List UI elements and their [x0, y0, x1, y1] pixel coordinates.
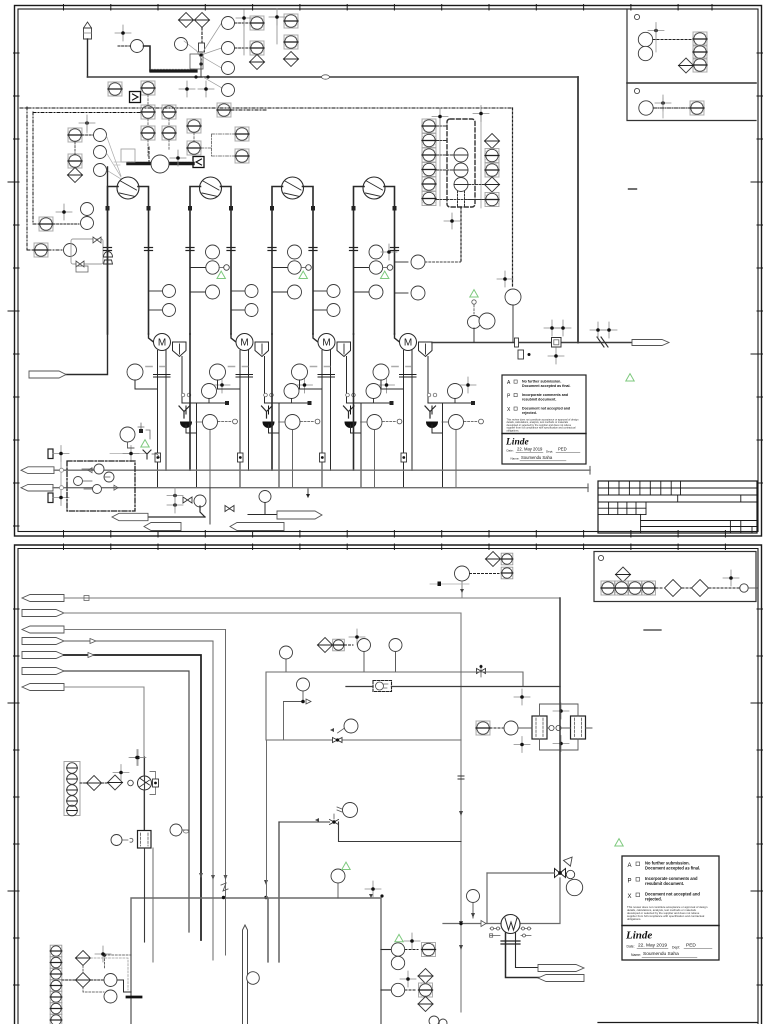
svg-text:rejected.: rejected. [645, 897, 662, 902]
instrument circle pair on header [468, 316, 481, 329]
dip tube [243, 925, 248, 1024]
wire vent line down [87, 39, 89, 77]
data-link box > [130, 92, 141, 103]
page 1 border tick marks [8, 5, 763, 538]
circle on flag6 line [280, 646, 293, 659]
page 2 outer border frame [15, 545, 762, 1024]
suction pipes of trains 2-4 to bottom header [189, 334, 191, 470]
discharge lines [506, 933, 541, 978]
long dash-dot signal line [20, 107, 513, 109]
lube oil skid boundary [71, 239, 103, 264]
sample dotted line down from cabinet [460, 207, 462, 262]
header 1 [54, 469, 590, 471]
svg-text:Name:: Name: [511, 457, 520, 461]
compressor train 2 [186, 177, 320, 488]
shared display [68, 128, 82, 142]
signal fan to compressor [107, 136, 122, 179]
arrows on vertical lines [459, 811, 463, 816]
inner dash-dot signal line [33, 112, 141, 114]
battery limit flag [29, 371, 66, 378]
relief bell on pipe [104, 252, 113, 257]
flag B [144, 523, 181, 531]
bracket connector [201, 134, 235, 156]
dotted signal [653, 39, 692, 41]
circle with crosshair [349, 629, 365, 645]
svg-text:obligations.: obligations. [507, 429, 520, 432]
control valve on flag6 line [477, 669, 486, 674]
green triangle lower left [141, 440, 149, 447]
svg-text:P: P [628, 879, 632, 885]
train 2 discharge instrument stubs [231, 285, 258, 317]
filter vessel 2 [571, 716, 586, 739]
inner drop [283, 702, 285, 741]
flag 5 right-pointing [22, 652, 64, 659]
flag 7 left-pointing [22, 684, 64, 691]
dotted signal to shared display [235, 22, 249, 24]
dashed drop [148, 147, 150, 162]
second shared display column [284, 14, 298, 28]
filter box [138, 831, 152, 849]
compressor train 3 [268, 177, 402, 488]
svg-text:resubmit document.: resubmit document. [645, 881, 684, 886]
vessel top arrows [369, 894, 373, 898]
line from flag4 [64, 640, 213, 642]
inline gate valve [515, 338, 519, 347]
gate valve rects [48, 449, 53, 459]
crosshair [115, 25, 131, 41]
train 3 discharge instrument stubs [313, 285, 340, 317]
svg-text:Document accepted as final.: Document accepted as final. [522, 384, 571, 388]
dashed PLC box [373, 681, 392, 692]
mid verticals [678, 495, 741, 502]
crosshair [170, 150, 186, 166]
crosshair [79, 115, 95, 131]
vertical stub [209, 488, 211, 524]
green position triangle [470, 290, 478, 297]
match line dash page 2 [644, 629, 661, 631]
flag D [277, 511, 322, 519]
dash-dot continuation right of cs [231, 109, 268, 111]
equipment box left edge [266, 672, 523, 740]
dashed boundary verticals [26, 107, 28, 250]
instrument circle [504, 721, 518, 735]
jacketed (hatched) line segment [151, 69, 196, 72]
instrument circles [94, 129, 107, 142]
shared display low [68, 154, 82, 168]
stack 3 with diamonds [485, 134, 500, 207]
legend frame [594, 552, 756, 602]
svg-text:PED: PED [558, 447, 567, 452]
local gauge [467, 890, 480, 903]
small box at line start [121, 149, 135, 162]
diamond [68, 168, 83, 183]
junction hardware [190, 53, 210, 78]
suction flags [21, 467, 54, 474]
shared display [250, 16, 264, 30]
svg-text:No further submission.: No further submission. [522, 380, 561, 384]
local gauge near train 1 drain [120, 427, 135, 442]
internal feed pipes [153, 630, 267, 963]
header 2 [53, 487, 588, 489]
diamond D2 [195, 13, 210, 28]
green triangle near approval [626, 374, 634, 381]
dash-dot link [48, 249, 63, 251]
shared display [476, 721, 490, 735]
svg-text:Dept:: Dept: [672, 946, 680, 950]
right rows [641, 521, 757, 527]
line from flag2 turning down [64, 613, 461, 1012]
dotted link [53, 223, 79, 225]
line from PLC to riser [392, 686, 561, 688]
vent silencer [84, 22, 92, 39]
drain collection cluster [167, 488, 183, 504]
instrument circle [222, 62, 235, 75]
dashed signal stub [118, 45, 131, 47]
instrument circle at fan top [222, 17, 235, 30]
compressor train 4 [350, 177, 484, 488]
inline sample valve [199, 43, 205, 52]
small drain rect [518, 350, 524, 359]
train 2 mid instruments [190, 245, 229, 299]
svg-text:PED: PED [686, 943, 696, 949]
diamond above row [616, 567, 631, 582]
flag A [112, 513, 148, 520]
crosshairs bottom of flag7 line [129, 750, 145, 766]
note marker circle [634, 14, 639, 19]
shared display grid [141, 105, 155, 119]
line from flag7 (gray) [64, 687, 144, 830]
junction node with fan of signal lines [184, 23, 222, 88]
shared display low [34, 243, 48, 257]
train 3 mid instruments [272, 245, 311, 299]
flag 4 right-pointing [22, 638, 64, 645]
svg-text:X: X [628, 894, 632, 900]
line from flag5 (dark) [64, 655, 201, 940]
train 4 discharge instrument stubs [395, 255, 461, 300]
full width rows [598, 488, 757, 502]
riser from flag1 line down [559, 598, 561, 873]
data-link box < [193, 157, 204, 168]
page 1 inner border frame [18, 9, 758, 532]
instrument circle above flag1 line [455, 566, 470, 581]
page 1 outer border frame [15, 6, 762, 537]
analyser circles [454, 148, 468, 192]
svg-text:obligations.: obligations. [627, 917, 641, 921]
diamond + shared display [318, 638, 333, 653]
stub instrument on line x=189 [170, 824, 182, 836]
flag 2 right-pointing [22, 610, 64, 617]
svg-text:Dept:: Dept: [546, 450, 553, 454]
train1 suction line to battery flag [66, 167, 108, 375]
crossover piping [518, 704, 592, 750]
pumps inside [74, 464, 115, 494]
dotted connectors [656, 587, 739, 589]
analyser dashed cabinet [447, 119, 475, 207]
line from flag6 [64, 671, 189, 932]
pump side taps [490, 929, 531, 936]
valve cluster on riser [555, 854, 583, 895]
level instrument inside [247, 972, 260, 985]
suction header [487, 872, 555, 874]
signal trunk verticals [439, 115, 441, 206]
bottom right small cells [730, 521, 752, 534]
diamond under shared display [250, 55, 265, 70]
flag C [230, 523, 284, 531]
revision fine grid [609, 481, 681, 495]
svg-text:Name:: Name: [631, 953, 641, 957]
dash-dot connectors [436, 126, 485, 200]
pump with motor [501, 915, 520, 934]
train 4 mid instruments [354, 244, 398, 299]
shared display stack 1 [422, 119, 436, 206]
crosshair pair below header [179, 81, 195, 97]
diamond and shared displays [486, 552, 501, 567]
svg-text:Soumendu Saha: Soumendu Saha [521, 455, 553, 460]
legend box frame [627, 9, 756, 121]
svg-text:Incorporate comments and: Incorporate comments and [522, 393, 568, 397]
jacketed suction line [128, 162, 193, 165]
shared display [108, 82, 122, 96]
flag 6 right-pointing [22, 668, 64, 675]
line from flag3 [64, 629, 226, 631]
diamonds [665, 580, 682, 597]
dashed vertical [74, 142, 76, 154]
bottom edge partial circles [429, 1016, 439, 1024]
line through booster down to filter [144, 757, 146, 831]
bottom-left big cell divider [640, 514, 642, 533]
long signal dotted vertical [512, 108, 514, 288]
flag 3 left-pointing [22, 626, 64, 633]
drain crosshair tap [110, 453, 148, 455]
instrument circle PI [131, 40, 144, 53]
cabinet internal sample dashes [458, 191, 465, 206]
dotted link [82, 134, 93, 136]
instrument circle below header [222, 84, 235, 97]
compressor train 1 [104, 177, 238, 488]
valve tree on box bottom [344, 719, 358, 733]
shared display [39, 217, 53, 231]
pump package dashed boundary [67, 461, 135, 511]
inline instrument on jacketed line [151, 155, 169, 173]
riser from header to top line [577, 77, 579, 343]
dashed drop from diamond [201, 28, 203, 44]
instrument circle [222, 42, 235, 55]
line from flag1 [64, 597, 560, 599]
discharge header line [432, 342, 632, 344]
product flag left-pointing [538, 975, 584, 982]
product flag right-pointing [538, 965, 584, 972]
inline reducer on header [322, 75, 330, 79]
match line dash [629, 188, 637, 190]
shared display stack [693, 32, 707, 46]
page 2 border tick marks [8, 544, 763, 985]
page 2 inner border frame [18, 549, 758, 1024]
train 1 discharge instrument stubs [149, 285, 176, 317]
top instrument [331, 869, 345, 883]
outlet flag arrow [632, 340, 669, 346]
svg-text:22. May 2019: 22. May 2019 [517, 447, 543, 452]
svg-text:Date:: Date: [627, 945, 635, 949]
square body valve [552, 338, 562, 348]
instrument circle w/ valve [297, 678, 310, 691]
vessel shell [131, 898, 381, 1024]
circle [389, 639, 402, 652]
svg-text:A: A [628, 863, 632, 869]
diamond D1 [179, 13, 194, 28]
stepped process line [144, 46, 152, 71]
svg-text:Linde: Linde [625, 930, 652, 942]
filter vessel 1 [532, 716, 547, 739]
page 2 title block top edge [598, 1022, 757, 1024]
instrument circle left [175, 38, 188, 51]
check valve [597, 337, 608, 347]
second legend row [634, 88, 639, 93]
shared display row [601, 581, 615, 595]
svg-text:Document accepted as final.: Document accepted as final. [645, 866, 700, 871]
stacked instrument circles [638, 32, 652, 46]
vertical dashed connectors in grid [148, 95, 194, 156]
instrument circle [64, 244, 77, 257]
svg-text:Date:: Date: [507, 449, 514, 453]
valve and circle mid [225, 506, 234, 512]
stacked instrument circles [81, 203, 94, 216]
skid valves [76, 237, 101, 267]
bottom-left analyser stack [50, 945, 62, 1024]
svg-text:Soumendu Saha: Soumendu Saha [643, 951, 679, 957]
svg-text:resubmit document.: resubmit document. [522, 398, 556, 402]
signal trunk line [243, 16, 245, 55]
main header line [88, 76, 579, 78]
svg-text:Document not accepted and: Document not accepted and [522, 407, 570, 411]
booster fan [138, 776, 152, 790]
svg-text:rejected.: rejected. [522, 411, 537, 415]
left mini grid [598, 508, 646, 514]
flag 1 left-pointing [22, 595, 64, 602]
instrument circle with long signal [505, 289, 521, 305]
svg-text:22. May 2019: 22. May 2019 [638, 943, 667, 949]
